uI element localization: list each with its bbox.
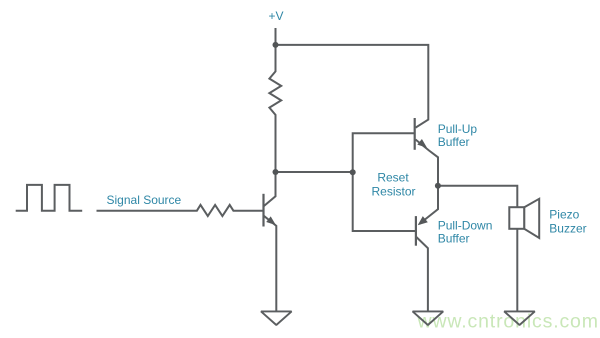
svg-text:+V: +V — [269, 9, 284, 23]
svg-text:Buzzer: Buzzer — [549, 221, 586, 235]
svg-text:Resistor: Resistor — [371, 185, 415, 199]
svg-text:Signal Source: Signal Source — [107, 193, 182, 207]
svg-text:Buffer: Buffer — [438, 231, 470, 245]
svg-text:Piezo: Piezo — [549, 207, 579, 221]
svg-text:Reset: Reset — [377, 171, 409, 185]
svg-text:Pull-Down: Pull-Down — [438, 218, 493, 232]
svg-text:Buffer: Buffer — [438, 135, 470, 149]
svg-text:Pull-Up: Pull-Up — [438, 122, 478, 136]
